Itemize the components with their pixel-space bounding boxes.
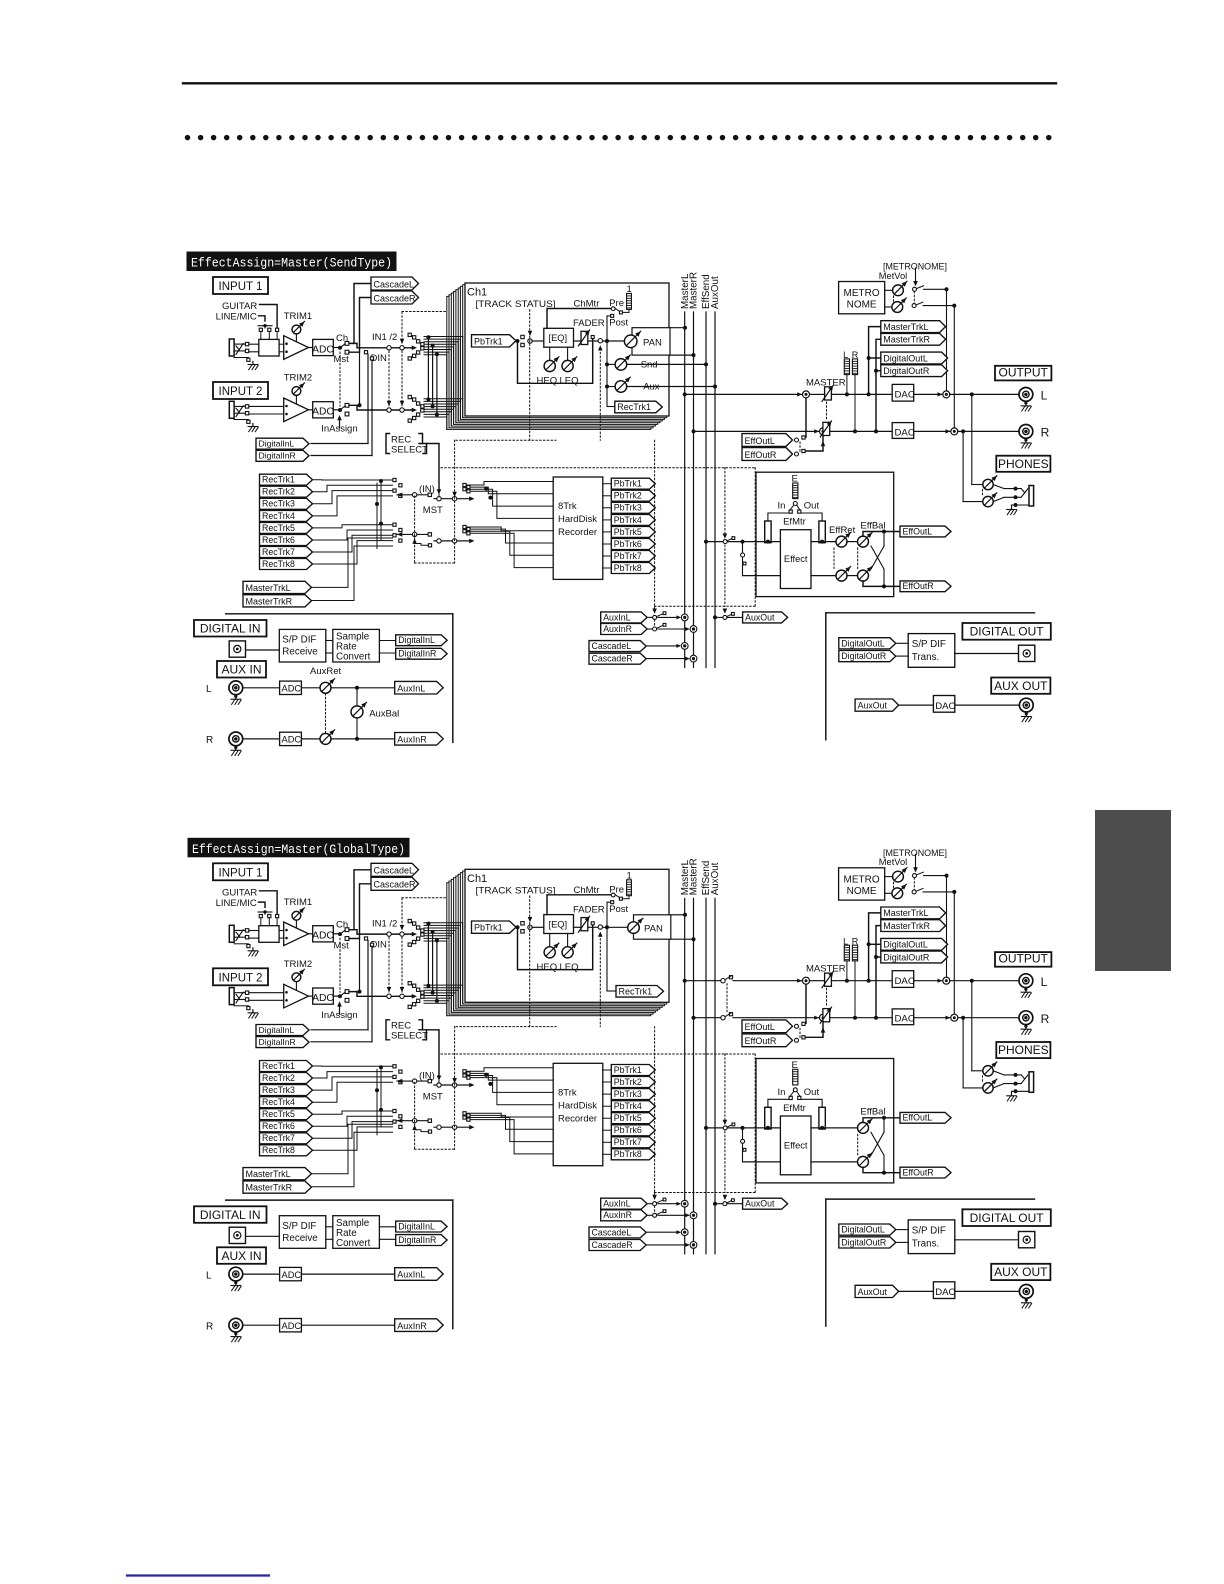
svg-text:AuxInL: AuxInL <box>397 683 425 693</box>
svg-text:DigitalInR: DigitalInR <box>398 1235 436 1245</box>
svg-text:DigitalOutR: DigitalOutR <box>883 952 930 962</box>
svg-text:RecTrk1: RecTrk1 <box>617 402 651 412</box>
svg-text:MasterR: MasterR <box>689 272 700 309</box>
svg-text:DigitalInR: DigitalInR <box>259 451 296 461</box>
svg-text:L: L <box>1041 975 1048 989</box>
svg-text:EffRet: EffRet <box>829 525 856 536</box>
svg-text:MST: MST <box>423 505 443 516</box>
svg-text:ADC: ADC <box>312 344 334 355</box>
svg-text:PbTrk6: PbTrk6 <box>614 539 642 549</box>
svg-text:EffOutR: EffOutR <box>745 1036 777 1046</box>
svg-text:AuxOut: AuxOut <box>858 1287 888 1297</box>
svg-text:S/P DIF: S/P DIF <box>282 635 316 646</box>
svg-text:EffBal: EffBal <box>860 520 885 531</box>
svg-text:LEQ: LEQ <box>560 962 579 973</box>
svg-text:PbTrk8: PbTrk8 <box>614 1149 642 1159</box>
svg-text:EfMtr: EfMtr <box>783 517 806 528</box>
svg-text:PbTrk1: PbTrk1 <box>614 479 642 489</box>
svg-text:Convert: Convert <box>336 652 371 663</box>
svg-text:8Trk: 8Trk <box>558 1087 577 1098</box>
svg-text:PbTrk1: PbTrk1 <box>474 336 503 346</box>
svg-text:Mst: Mst <box>334 354 350 365</box>
svg-text:In: In <box>778 1087 786 1098</box>
svg-text:ChMtr: ChMtr <box>574 885 600 896</box>
svg-text:METRO: METRO <box>844 288 880 299</box>
svg-text:Mst: Mst <box>334 940 350 951</box>
svg-text:CascadeL: CascadeL <box>592 1227 632 1237</box>
svg-text:AuxBal: AuxBal <box>369 709 399 720</box>
svg-text:Recorder: Recorder <box>558 527 597 538</box>
svg-text:PbTrk2: PbTrk2 <box>614 1077 642 1087</box>
svg-text:(IN): (IN) <box>419 484 435 495</box>
svg-text:RecTrk4: RecTrk4 <box>262 1097 295 1107</box>
svg-text:AuxInR: AuxInR <box>603 624 632 634</box>
svg-text:HardDisk: HardDisk <box>558 514 597 525</box>
svg-text:DigitalInR: DigitalInR <box>398 649 436 659</box>
svg-text:RecTrk3: RecTrk3 <box>262 1085 295 1095</box>
svg-text:CascadeR: CascadeR <box>592 1240 633 1250</box>
svg-text:RecTrk4: RecTrk4 <box>262 511 295 521</box>
svg-text:Effect: Effect <box>784 554 808 564</box>
svg-text:DAC: DAC <box>935 701 955 712</box>
svg-text:RecTrk8: RecTrk8 <box>262 559 295 569</box>
svg-text:ADC: ADC <box>282 735 302 745</box>
svg-text:MasterTrkL: MasterTrkL <box>246 1169 291 1179</box>
svg-text:DigitalInR: DigitalInR <box>259 1037 296 1047</box>
svg-text:AUX IN: AUX IN <box>221 663 261 677</box>
svg-text:EffectAssign=Master(GlobalType: EffectAssign=Master(GlobalType) <box>192 843 405 857</box>
svg-text:Out: Out <box>804 501 820 512</box>
svg-text:MasterTrkR: MasterTrkR <box>883 335 930 345</box>
svg-text:AuxInL: AuxInL <box>397 1270 425 1280</box>
svg-text:PbTrk2: PbTrk2 <box>614 491 642 501</box>
svg-text:PbTrk8: PbTrk8 <box>614 563 642 573</box>
svg-text:PbTrk6: PbTrk6 <box>614 1125 642 1135</box>
svg-text:IN1 /2: IN1 /2 <box>372 332 397 343</box>
svg-text:MasterTrkR: MasterTrkR <box>246 1183 293 1193</box>
svg-text:RecTrk8: RecTrk8 <box>262 1145 295 1155</box>
svg-text:PbTrk7: PbTrk7 <box>614 1137 642 1147</box>
svg-text:Trans.: Trans. <box>912 652 939 663</box>
svg-text:DIGITAL IN: DIGITAL IN <box>200 1208 261 1222</box>
svg-text:CascadeL: CascadeL <box>374 866 415 876</box>
svg-text:GUITAR: GUITAR <box>222 887 257 898</box>
svg-text:DigitalOutL: DigitalOutL <box>883 940 928 950</box>
svg-text:1: 1 <box>627 870 632 881</box>
svg-text:R: R <box>206 1321 213 1332</box>
svg-text:CascadeR: CascadeR <box>374 293 417 303</box>
svg-text:NOME: NOME <box>847 886 877 897</box>
svg-text:INPUT 2: INPUT 2 <box>219 972 263 984</box>
svg-text:ADC: ADC <box>312 407 334 418</box>
svg-text:RecTrk7: RecTrk7 <box>262 547 295 557</box>
svg-text:RecTrk2: RecTrk2 <box>262 1073 295 1083</box>
svg-text:Ch1: Ch1 <box>467 873 487 885</box>
svg-text:PbTrk3: PbTrk3 <box>614 1089 642 1099</box>
svg-text:RecTrk7: RecTrk7 <box>262 1133 295 1143</box>
svg-text:CascadeL: CascadeL <box>592 641 632 651</box>
svg-text:AuxOut: AuxOut <box>745 1199 775 1209</box>
svg-text:MasterTrkL: MasterTrkL <box>246 583 291 593</box>
svg-text:DAC: DAC <box>895 427 915 438</box>
svg-text:HEQ: HEQ <box>537 962 558 973</box>
svg-text:PHONES: PHONES <box>998 457 1049 471</box>
svg-text:MasterTrkL: MasterTrkL <box>883 908 928 918</box>
svg-text:EfMtr: EfMtr <box>783 1103 806 1114</box>
svg-text:DigitalInL: DigitalInL <box>259 1025 295 1035</box>
svg-text:RecTrk5: RecTrk5 <box>262 523 295 533</box>
svg-text:CascadeR: CascadeR <box>374 880 417 890</box>
svg-text:MetVol: MetVol <box>879 271 907 281</box>
svg-text:Post: Post <box>609 318 628 329</box>
svg-text:TRIM2: TRIM2 <box>284 959 313 970</box>
svg-text:AuxInL: AuxInL <box>603 1199 630 1209</box>
svg-text:R: R <box>1041 426 1050 440</box>
svg-text:LINE/MIC: LINE/MIC <box>216 312 257 323</box>
svg-text:Effect: Effect <box>784 1140 808 1150</box>
svg-text:AuxInR: AuxInR <box>603 1210 632 1220</box>
svg-text:AuxOut: AuxOut <box>745 612 775 622</box>
svg-text:Convert: Convert <box>336 1238 371 1249</box>
svg-text:PbTrk1: PbTrk1 <box>474 923 503 933</box>
svg-text:Recorder: Recorder <box>558 1113 597 1124</box>
svg-text:CascadeL: CascadeL <box>374 279 415 289</box>
svg-text:EffOutL: EffOutL <box>745 436 775 446</box>
svg-text:Aux: Aux <box>643 382 660 393</box>
svg-text:DAC: DAC <box>895 976 915 987</box>
svg-text:DigitalOutR: DigitalOutR <box>841 651 886 661</box>
svg-text:InAssign: InAssign <box>321 424 357 435</box>
svg-text:AUX OUT: AUX OUT <box>994 1265 1048 1279</box>
svg-text:L: L <box>206 1270 212 1281</box>
svg-text:DigitalInL: DigitalInL <box>398 635 435 645</box>
svg-text:DIGITAL IN: DIGITAL IN <box>200 622 261 636</box>
svg-text:AuxInL: AuxInL <box>603 612 630 622</box>
svg-text:DAC: DAC <box>895 1014 915 1025</box>
svg-text:MST: MST <box>423 1091 443 1102</box>
svg-text:ADC: ADC <box>282 684 302 694</box>
svg-text:DAC: DAC <box>895 390 915 401</box>
svg-text:R: R <box>1041 1012 1050 1026</box>
svg-text:Ch1: Ch1 <box>467 287 487 299</box>
svg-text:S/P DIF: S/P DIF <box>912 639 946 650</box>
svg-text:AuxOut: AuxOut <box>710 862 721 895</box>
svg-text:OUTPUT: OUTPUT <box>999 365 1049 379</box>
svg-text:S/P DIF: S/P DIF <box>282 1221 316 1232</box>
svg-text:DigitalInL: DigitalInL <box>398 1221 435 1231</box>
svg-text:DigitalOutL: DigitalOutL <box>841 1225 885 1235</box>
svg-text:METRO: METRO <box>844 874 880 885</box>
svg-text:MasterTrkL: MasterTrkL <box>883 322 928 332</box>
svg-text:RecTrk2: RecTrk2 <box>262 487 295 497</box>
svg-text:MetVol: MetVol <box>879 857 907 867</box>
svg-text:In: In <box>778 501 786 512</box>
svg-text:TRIM1: TRIM1 <box>284 311 313 322</box>
svg-text:[EQ]: [EQ] <box>549 333 568 343</box>
svg-text:[TRACK STATUS]: [TRACK STATUS] <box>476 299 556 310</box>
svg-text:LEQ: LEQ <box>560 376 579 387</box>
svg-text:Receive: Receive <box>282 1233 318 1244</box>
svg-text:INPUT 2: INPUT 2 <box>219 386 263 398</box>
svg-text:EffOutL: EffOutL <box>903 526 933 536</box>
svg-text:DIGITAL OUT: DIGITAL OUT <box>970 625 1045 639</box>
svg-text:HEQ: HEQ <box>537 376 558 387</box>
svg-text:EffectAssign=Master(SendType): EffectAssign=Master(SendType) <box>191 257 392 271</box>
svg-text:PAN: PAN <box>644 923 663 934</box>
svg-text:DigitalOutR: DigitalOutR <box>841 1237 886 1247</box>
svg-text:Snd: Snd <box>641 360 658 371</box>
svg-text:PbTrk1: PbTrk1 <box>614 1065 642 1075</box>
svg-text:Post: Post <box>609 904 628 915</box>
svg-text:AuxInR: AuxInR <box>397 1321 427 1331</box>
svg-text:InAssign: InAssign <box>321 1010 357 1021</box>
svg-text:DigitalOutL: DigitalOutL <box>883 353 928 363</box>
svg-text:Trans.: Trans. <box>912 1238 939 1249</box>
svg-text:FADER: FADER <box>573 904 605 915</box>
svg-text:DigitalOutL: DigitalOutL <box>841 638 885 648</box>
svg-text:LINE/MIC: LINE/MIC <box>216 898 257 909</box>
svg-text:ChMtr: ChMtr <box>574 299 600 310</box>
svg-text:RecTrk3: RecTrk3 <box>262 499 295 509</box>
svg-text:AuxInR: AuxInR <box>397 735 427 745</box>
svg-text:EffOutL: EffOutL <box>745 1022 775 1032</box>
svg-text:ADC: ADC <box>312 931 334 942</box>
svg-text:PbTrk7: PbTrk7 <box>614 551 642 561</box>
svg-text:ADC: ADC <box>282 1270 302 1280</box>
svg-text:ADC: ADC <box>312 993 334 1004</box>
svg-text:EffOutR: EffOutR <box>903 1167 934 1177</box>
svg-text:(IN): (IN) <box>419 1070 435 1081</box>
svg-text:INPUT 1: INPUT 1 <box>219 867 263 879</box>
svg-text:PbTrk4: PbTrk4 <box>614 515 642 525</box>
svg-text:MasterTrkR: MasterTrkR <box>246 596 293 606</box>
svg-text:GUITAR: GUITAR <box>222 301 257 312</box>
svg-text:1: 1 <box>627 284 632 295</box>
svg-text:AuxOut: AuxOut <box>710 276 721 309</box>
svg-text:DIGITAL OUT: DIGITAL OUT <box>970 1211 1045 1225</box>
svg-text:AUX OUT: AUX OUT <box>994 679 1048 693</box>
svg-text:HardDisk: HardDisk <box>558 1100 597 1111</box>
svg-text:AuxRet: AuxRet <box>310 666 342 677</box>
svg-text:S/P DIF: S/P DIF <box>912 1225 946 1236</box>
svg-text:OUTPUT: OUTPUT <box>999 952 1049 966</box>
svg-text:L: L <box>206 684 212 695</box>
svg-text:AUX IN: AUX IN <box>221 1249 261 1263</box>
svg-text:CascadeR: CascadeR <box>592 654 633 664</box>
svg-text:RecTrk1: RecTrk1 <box>262 1061 295 1071</box>
svg-text:TRIM1: TRIM1 <box>284 897 313 908</box>
svg-text:Out: Out <box>804 1087 820 1098</box>
svg-text:EffOutR: EffOutR <box>745 450 777 460</box>
svg-text:PAN: PAN <box>643 337 662 348</box>
svg-text:EffOutL: EffOutL <box>903 1113 933 1123</box>
svg-text:IN1 /2: IN1 /2 <box>372 918 397 929</box>
svg-text:FADER: FADER <box>573 318 605 329</box>
svg-text:PbTrk5: PbTrk5 <box>614 1113 642 1123</box>
svg-text:PbTrk4: PbTrk4 <box>614 1101 642 1111</box>
svg-text:AuxOut: AuxOut <box>858 701 888 711</box>
svg-text:DAC: DAC <box>935 1287 955 1298</box>
svg-text:PbTrk5: PbTrk5 <box>614 527 642 537</box>
svg-text:MasterTrkR: MasterTrkR <box>883 921 930 931</box>
svg-text:RecTrk1: RecTrk1 <box>262 475 295 485</box>
svg-text:RecTrk5: RecTrk5 <box>262 1109 295 1119</box>
svg-text:8Trk: 8Trk <box>558 501 577 512</box>
svg-text:NOME: NOME <box>847 300 877 311</box>
svg-text:ADC: ADC <box>282 1321 302 1331</box>
svg-text:Receive: Receive <box>282 647 318 658</box>
svg-text:PbTrk3: PbTrk3 <box>614 503 642 513</box>
svg-text:TRIM2: TRIM2 <box>284 373 313 384</box>
svg-text:DigitalOutR: DigitalOutR <box>883 366 930 376</box>
svg-text:[EQ]: [EQ] <box>549 919 568 929</box>
svg-text:RecTrk6: RecTrk6 <box>262 535 295 545</box>
svg-text:L: L <box>1041 389 1048 403</box>
svg-text:[TRACK STATUS]: [TRACK STATUS] <box>476 885 556 896</box>
svg-text:MasterR: MasterR <box>689 858 700 895</box>
svg-text:EffBal: EffBal <box>860 1107 885 1118</box>
svg-text:DigitalInL: DigitalInL <box>259 439 295 449</box>
svg-text:RecTrk6: RecTrk6 <box>262 1121 295 1131</box>
svg-text:RecTrk1: RecTrk1 <box>619 987 653 997</box>
svg-text:PHONES: PHONES <box>998 1043 1049 1057</box>
svg-text:INPUT 1: INPUT 1 <box>219 281 263 293</box>
svg-text:R: R <box>206 735 213 746</box>
svg-text:EffOutR: EffOutR <box>903 581 934 591</box>
